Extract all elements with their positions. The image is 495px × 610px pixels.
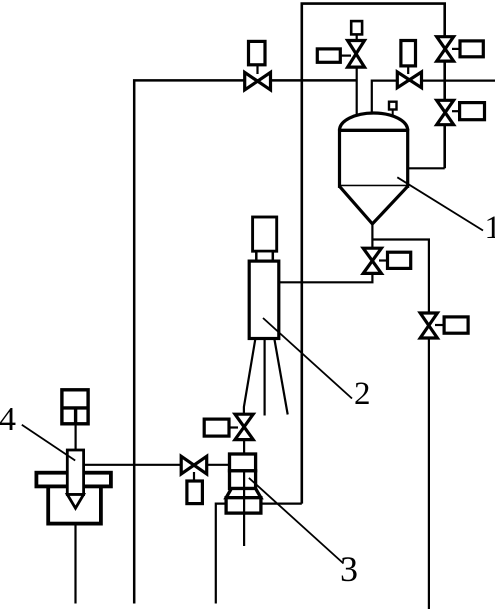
component 4 pot body [48,486,101,523]
valve V3 side stem [452,48,460,50]
valve V6 side box [444,317,468,333]
svg-text:2: 2 [354,376,371,412]
wire: long left vertical pipe [134,80,357,603]
valve V8 hanging stem [193,472,195,482]
wire: cone tip down to valve V5 [371,222,373,249]
valve V2 actuator box [401,41,416,66]
svg-text:4: 4 [0,401,16,438]
wire: stub from component 3 to right riser [261,503,302,505]
wire: valve V8 to component 3 [207,464,230,466]
valve V7 body [235,414,253,439]
component 3 bottom box [226,498,261,513]
label pointer line to vessel 1 [397,177,483,230]
component 4 instrument box vertical divider [74,408,77,424]
component 3 transition trapezoid [226,489,261,498]
column 2 neck [256,251,273,261]
valve V5 side stem [379,259,388,261]
component 3 upper box [230,454,256,471]
vessel 1 dome fitting stem [392,109,394,117]
wire: below valve V5 then left to column 2 [279,273,373,282]
valve V7 side box [204,419,229,436]
svg-text:1: 1 [485,210,495,246]
wire: component 4 bottom pipe [74,524,76,604]
component 4 probe tube [67,450,83,495]
column 2 top box [253,217,277,251]
valve V1 body [348,41,365,68]
vessel 1 cone bottom [340,186,408,224]
component 4 instrument box [62,390,88,424]
wire: valve V7 to component 3 [243,439,245,454]
vessel 1 dome fitting square [389,102,397,110]
valve V6 body [420,313,437,338]
vessel 1 top weld line [340,129,408,132]
valve V1 side box stem [340,54,351,56]
valve V6 side stem [435,324,444,326]
valve V4 side box [460,103,485,120]
label pointer line to component 4 [22,425,75,461]
valve V0 body [245,72,271,90]
vessel 1 dome [340,113,408,130]
valve V5 body [363,248,381,273]
column 2 body [249,261,279,338]
valve V3 body [437,37,454,61]
valve V0 actuator box [249,41,266,64]
valve V8 hanging box [187,481,203,504]
wire: right header from dome corner to right edge [372,81,495,116]
valve V7 side stem [229,426,238,428]
wire: column 2 left leg pipe to valve V7 [244,339,256,415]
valve V4 side stem [452,110,460,112]
valve V8 body [181,456,207,474]
wire: top header line with corners [302,4,445,504]
vessel 1 body [340,130,408,186]
valve V1 side box [317,49,340,62]
component 4 probe tip [67,495,83,509]
wire: component 3 left stub and down pipe [216,504,226,604]
wire: component 4 stem to probe [74,424,76,450]
label pointer line to component 3 [249,478,344,564]
valve V2 stem [407,65,409,74]
valve V0 stem [256,64,258,74]
wire: column 2 right leg [274,339,287,415]
component 3 lower box [230,471,256,489]
wire: valve V1 drop pipe into vessel dome [356,34,358,118]
valve V4 body [437,100,454,124]
component 4 instrument box horizontal divider [62,406,88,409]
wire: column 2 middle leg [264,339,266,416]
valve V1 cap square [351,21,362,34]
valve V3 side box [460,41,483,57]
svg-text:3: 3 [340,549,358,589]
label pointer line to column 2 [263,318,352,399]
valve V2 body [397,72,421,88]
component 4 flange plate [36,473,111,487]
wire: feed line from probe to valve V8 [84,464,182,466]
wire: below valve V6 to bottom edge [428,338,430,609]
valve V5 side box [388,252,411,268]
component 3 center pipe [243,471,245,546]
wire: vessel right nozzle to riser [408,167,445,169]
wire: branch from cone pipe to right down-line [372,240,429,314]
